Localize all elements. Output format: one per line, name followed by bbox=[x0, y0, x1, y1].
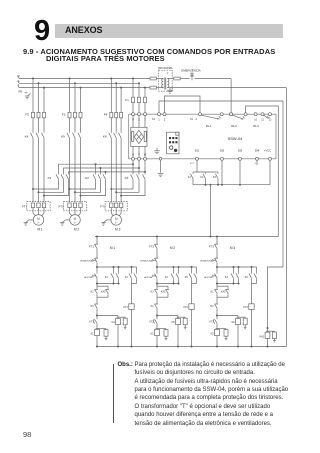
svg-text:DI1: DI1 bbox=[195, 148, 200, 152]
svg-text:K2: K2 bbox=[85, 176, 89, 180]
svg-text:M 2: M 2 bbox=[74, 228, 80, 232]
svg-text:FT2: FT2 bbox=[149, 245, 154, 249]
svg-text:+VCC: +VCC bbox=[264, 148, 271, 152]
observation note block bbox=[113, 364, 114, 423]
wire U bus bbox=[132, 160, 134, 164]
svg-text:DI3: DI3 bbox=[238, 148, 243, 152]
wire DI3 drop bbox=[239, 160, 241, 184]
wire seal join 3 bbox=[217, 283, 239, 285]
svg-text:12: 12 bbox=[269, 118, 272, 121]
svg-text:KA2: KA2 bbox=[161, 291, 166, 294]
wire secondary top bbox=[170, 78, 174, 80]
ground transformer secondary bbox=[169, 88, 171, 91]
svg-text:K1: K1 bbox=[188, 176, 192, 179]
svg-text:K2: K2 bbox=[211, 305, 215, 308]
motor M 2 bbox=[70, 213, 72, 215]
svg-text:ACIONA: ACIONA bbox=[144, 276, 152, 279]
wire DI bus to ladder rail bbox=[209, 185, 211, 237]
node coil branch 2 bbox=[156, 315, 158, 317]
gray chapter bar ANEXOS bbox=[55, 24, 283, 38]
svg-text:T: T bbox=[167, 72, 169, 76]
svg-text:KA2: KA2 bbox=[260, 335, 265, 338]
wire emergency to terminal bbox=[198, 78, 231, 80]
relay output RL2 terminals 7 8 bbox=[230, 113, 233, 116]
svg-text:6: 6 bbox=[196, 118, 198, 121]
svg-text:K5: K5 bbox=[61, 134, 65, 138]
svg-text:PE: PE bbox=[18, 89, 22, 93]
wire DI1 to selection contacts bbox=[196, 160, 198, 172]
wire DI2 drop bbox=[221, 160, 223, 184]
svg-text:K2: K2 bbox=[151, 333, 155, 336]
wire seal join 2 bbox=[157, 283, 179, 285]
ground motor M 1 bbox=[29, 219, 33, 221]
svg-text:W: W bbox=[144, 152, 147, 156]
svg-text:SSW-04: SSW-04 bbox=[228, 136, 244, 141]
svg-text:F1: F1 bbox=[125, 98, 129, 102]
motor M 3 bbox=[111, 213, 113, 215]
svg-text:RL3: RL3 bbox=[253, 124, 259, 128]
svg-text:K3: K3 bbox=[225, 276, 229, 279]
svg-text:K5: K5 bbox=[185, 276, 189, 279]
soft-starter U1 SSW-04 bbox=[129, 114, 276, 159]
svg-text:K5: K5 bbox=[172, 321, 176, 324]
svg-text:K6: K6 bbox=[232, 321, 236, 324]
node branch 3 bbox=[216, 266, 218, 268]
svg-text:K6: K6 bbox=[103, 134, 107, 138]
svg-text:DESACIONA: DESACIONA bbox=[80, 259, 92, 262]
svg-text:DESACIONA: DESACIONA bbox=[140, 259, 152, 262]
fuse transformer primary T bbox=[150, 86, 156, 89]
svg-text:1: 1 bbox=[158, 117, 160, 121]
svg-text:V: V bbox=[138, 152, 140, 156]
wire ladder top rail bbox=[95, 236, 278, 238]
node coil branch 1 bbox=[96, 315, 98, 317]
svg-text:2: 2 bbox=[164, 117, 166, 121]
svg-text:KA2: KA2 bbox=[101, 291, 106, 294]
svg-text:K3: K3 bbox=[211, 333, 215, 336]
svg-text:KT1: KT1 bbox=[124, 306, 129, 309]
svg-text:K4: K4 bbox=[125, 276, 129, 279]
ground PE bbox=[25, 92, 28, 94]
svg-text:FT1: FT1 bbox=[89, 245, 94, 249]
junction K2 tap bbox=[100, 167, 102, 169]
svg-text:F2: F2 bbox=[25, 113, 29, 117]
svg-text:DI4: DI4 bbox=[255, 148, 260, 152]
svg-text:K4: K4 bbox=[112, 321, 116, 324]
svg-text:DESACIONA: DESACIONA bbox=[200, 259, 212, 262]
svg-text:X1: X1 bbox=[152, 117, 156, 121]
svg-text:K1: K1 bbox=[48, 176, 52, 180]
svg-text:RL1: RL1 bbox=[206, 124, 212, 128]
relay output RL3 terminals 10 11 12 bbox=[254, 113, 257, 116]
svg-text:U: U bbox=[132, 152, 134, 156]
svg-text:K3: K3 bbox=[151, 291, 155, 294]
thyristor bridge power section bbox=[131, 127, 147, 146]
svg-text:FT3: FT3 bbox=[209, 245, 214, 249]
svg-text:X2 1: X2 1 bbox=[190, 163, 195, 165]
ground motor M 3 bbox=[107, 219, 111, 221]
svg-text:EMERGÊNCIA: EMERGÊNCIA bbox=[181, 67, 201, 72]
wire seal join 1 bbox=[97, 283, 119, 285]
wire DI join bus bbox=[193, 184, 270, 186]
wire +VCC drop bbox=[269, 160, 271, 184]
svg-text:K1: K1 bbox=[151, 305, 155, 308]
junction K2 tap bbox=[105, 171, 107, 173]
terminal X1-2 bbox=[163, 113, 166, 116]
page number 98 bbox=[23, 430, 31, 439]
svg-text:M 3: M 3 bbox=[115, 228, 121, 232]
svg-text:K1: K1 bbox=[211, 291, 215, 294]
svg-text:M 1: M 1 bbox=[110, 246, 116, 250]
junctions branch 1 taps bbox=[32, 78, 34, 80]
wire RL2 terminal 8 route to rail feed bbox=[246, 106, 279, 237]
svg-text:11: 11 bbox=[261, 118, 264, 121]
svg-text:K3: K3 bbox=[125, 176, 129, 180]
svg-text:K3: K3 bbox=[91, 305, 95, 308]
svg-text:K2: K2 bbox=[165, 276, 169, 279]
wire X1-1 route to KA2 feed bbox=[159, 101, 283, 332]
svg-text:M 1: M 1 bbox=[37, 228, 43, 232]
svg-text:ACIONA: ACIONA bbox=[84, 276, 92, 279]
svg-text:OPCIONAL: OPCIONAL bbox=[158, 66, 173, 70]
svg-text:K2: K2 bbox=[91, 291, 95, 294]
chapter number 9 bbox=[34, 15, 50, 48]
svg-text:F3: F3 bbox=[62, 113, 66, 117]
serial connector XC1 bbox=[167, 132, 179, 154]
node coil branch 3 bbox=[216, 315, 218, 317]
svg-text:K1: K1 bbox=[105, 276, 109, 279]
svg-text:DI2: DI2 bbox=[220, 148, 225, 152]
node branch 1 bbox=[96, 266, 98, 268]
svg-text:K4: K4 bbox=[25, 134, 29, 138]
fuse secondary bbox=[174, 77, 180, 80]
relay coil KA2 bbox=[267, 327, 269, 329]
svg-text:M 3: M 3 bbox=[230, 246, 236, 250]
svg-text:RL2: RL2 bbox=[231, 124, 237, 128]
junctions branch 2 taps bbox=[69, 78, 71, 80]
junction K2 tap bbox=[95, 163, 97, 165]
wire S bus bbox=[20, 82, 139, 84]
svg-text:KA2: KA2 bbox=[221, 291, 226, 294]
ground PE SSW bbox=[154, 150, 160, 152]
svg-text:K3: K3 bbox=[213, 176, 217, 179]
svg-text:4: 4 bbox=[254, 163, 256, 165]
svg-text:F4: F4 bbox=[104, 113, 108, 117]
svg-text:M: M bbox=[37, 217, 40, 221]
svg-text:X2: X2 bbox=[190, 118, 194, 121]
svg-text:KT2: KT2 bbox=[184, 306, 189, 309]
wire V bus bbox=[138, 160, 140, 168]
terminal emergency entry bbox=[230, 113, 233, 116]
svg-text:K2: K2 bbox=[200, 176, 204, 179]
wire W bus bbox=[144, 160, 146, 172]
ground motor M 2 bbox=[66, 219, 70, 221]
wire X1-2 route to RL1 terminal bbox=[165, 96, 201, 113]
svg-text:M: M bbox=[115, 217, 118, 221]
svg-text:K6: K6 bbox=[245, 276, 249, 279]
junctions branch 3 taps bbox=[110, 78, 112, 80]
svg-text:KT3: KT3 bbox=[244, 306, 249, 309]
section title 9.9 bbox=[23, 48, 275, 63]
svg-text:M 2: M 2 bbox=[170, 246, 176, 250]
terminals R S T input bbox=[132, 113, 135, 116]
wire T bus bbox=[20, 87, 150, 89]
svg-text:10: 10 bbox=[254, 118, 257, 121]
wire DI4 stub bbox=[256, 160, 258, 165]
wire ladder bottom rail bbox=[97, 346, 286, 348]
svg-text:M: M bbox=[74, 217, 77, 221]
svg-text:K1: K1 bbox=[91, 333, 95, 336]
node branch 2 bbox=[156, 266, 158, 268]
wire secondary bottom to right rail bbox=[170, 87, 286, 89]
fuse transformer primary R bbox=[150, 77, 156, 80]
wire R bus bbox=[20, 78, 150, 80]
motor M 1 bbox=[33, 213, 35, 215]
svg-text:ACIONA: ACIONA bbox=[204, 276, 212, 279]
